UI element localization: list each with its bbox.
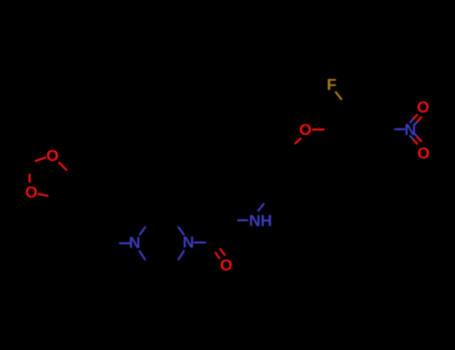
bond C4-N9 (blue half)	[395, 128, 404, 130]
bond N3-C ring lower (blue half)	[140, 251, 146, 259]
bond N9=O11 line2 red half	[418, 137, 422, 141]
svg-text:N: N	[183, 234, 195, 251]
bond O2-C3a (dioxole left O to aryl, red half)	[38, 194, 47, 196]
svg-text:NH: NH	[249, 213, 272, 230]
svg-text:O: O	[299, 122, 311, 139]
svg-text:O: O	[46, 148, 58, 165]
bond O1-CH2 (dioxole top O to methylene, red half)	[36, 158, 46, 161]
bond N9=O10 line2 red half	[418, 117, 422, 121]
bond O7-C aryl lower (red half)	[295, 139, 300, 144]
bond N6-C aryl (blue half)	[258, 204, 263, 211]
svg-text:N: N	[405, 122, 417, 139]
svg-text:O: O	[25, 185, 37, 202]
bond N4-C ring lower (blue half)	[178, 251, 183, 259]
bond O7-C1 fluorophenyl (red half)	[313, 129, 324, 131]
bond C=O5 main line (red half)	[220, 249, 224, 255]
bond F-C2 (olive half)	[336, 92, 342, 99]
bond N9=O11 line1 blue half	[410, 136, 413, 140]
bond N4-C ring upper (blue half)	[178, 227, 183, 234]
bond N9=O10 line1 red half	[414, 115, 418, 119]
svg-text:O: O	[220, 258, 232, 275]
bond N9=O11 line2 blue half	[414, 134, 417, 138]
svg-text:F: F	[327, 77, 337, 94]
svg-text:O: O	[417, 146, 429, 163]
bond O2-CH2 (dioxole left O to methylene, red half)	[29, 174, 31, 182]
svg-text:O: O	[417, 99, 429, 116]
bond N9=O11 line1 red half	[414, 140, 418, 144]
bond CH2-N6 amide (blue half)	[238, 219, 248, 221]
bond N3-C ring upper (blue half)	[140, 227, 145, 234]
bond N4-C carbonyl (blue half)	[195, 242, 206, 244]
bond N9=O10 line2 blue half	[414, 121, 417, 125]
svg-text:N: N	[129, 235, 141, 252]
bond O1-C7a (dioxole top O to aryl, red half)	[59, 163, 66, 170]
bond N9=O10 line1 blue half	[410, 119, 413, 123]
bond C=O5 second line (red half)	[216, 253, 220, 258]
bond CH2benzyl-N3 (blue half)	[120, 242, 130, 244]
